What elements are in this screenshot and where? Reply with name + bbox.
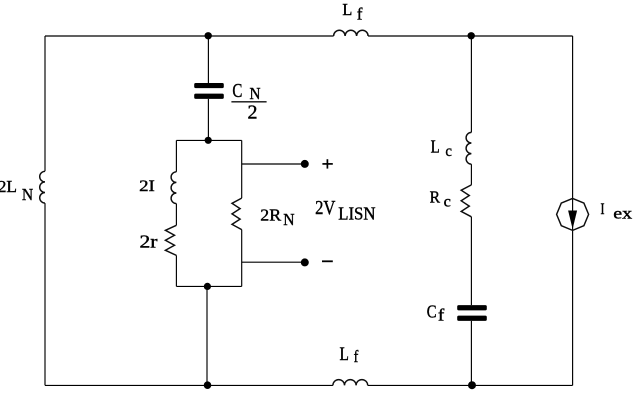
node dot top right branch tap [468,32,475,39]
svg-text:ex: ex [613,205,632,222]
inductor L_f (bottom) [333,380,368,386]
wire bottom (right segment) [368,384,573,386]
svg-text:f: f [438,306,445,325]
wire right branch (top segment) [470,36,472,132]
svg-text:2: 2 [248,103,258,124]
label 2V_LISN [315,198,375,224]
svg-text:2V: 2V [315,198,335,219]
wire bottom (left segment) [45,384,333,386]
svg-text:N: N [22,185,33,204]
svg-text:L: L [340,344,349,365]
svg-text:2L: 2L [0,177,17,196]
label L_f top [342,0,363,24]
wire box bottom edge [176,285,241,287]
label L_c [431,137,453,161]
label C_f [427,301,445,324]
svg-text:I: I [601,201,605,218]
svg-text:C: C [232,80,242,102]
plus sign [322,159,332,168]
svg-text:f: f [357,5,363,24]
svg-text:L: L [431,137,440,157]
wire box left edge (top segment) [175,140,177,171]
svg-text:N: N [283,210,294,229]
svg-text:N: N [250,84,261,103]
svg-text:c: c [444,193,451,210]
svg-text:C: C [427,301,437,321]
node dot box bottom [204,283,211,290]
wire right branch (between L_c and R_c) [470,164,472,185]
wire to - terminal [242,261,305,263]
label 2L_N [0,177,33,204]
node dot - terminal [301,258,309,266]
inductor 2I [171,172,176,204]
capacitor C_N plate 1 [194,83,224,88]
capacitor C_f plate 2 [457,316,487,321]
node dot bottom center [204,381,212,389]
wire C_N branch (upper) [207,36,209,83]
wire left (lower segment) [44,203,46,385]
label 2R_N [260,205,294,229]
label I_ex [601,201,633,222]
wire box right edge (bottom segment) [241,230,243,287]
resistor 2R_N [232,198,242,230]
label L_f bottom [340,344,359,366]
node dot + terminal [301,160,309,168]
inductor L_f (top) [334,30,369,36]
node dot bottom right branch [468,381,476,389]
wire to + terminal [242,163,305,165]
wire center bottom branch [206,286,208,385]
svg-text:f: f [354,347,359,366]
wire box top edge [176,139,241,141]
resistor 2r [165,225,176,255]
svg-text:LISN: LISN [338,204,375,224]
svg-text:R: R [430,188,441,207]
inductor L_c [466,132,471,164]
svg-text:c: c [445,143,452,160]
inductor 2L_N [40,171,45,203]
current source I_ex (octagon body) [557,198,589,230]
wire C_N branch (lower) [207,99,209,140]
wire box right edge (top segment) [241,140,243,198]
minus sign [322,260,333,262]
svg-text:L: L [342,0,352,19]
wire top (right segment) [368,35,572,37]
wire right branch (between R_c and C_f) [470,217,472,305]
wire box left edge (bottom segment) [175,255,177,286]
label C_N/2 [231,80,266,124]
label R_c [430,188,451,211]
capacitor C_N plate 2 [194,94,224,99]
resistor R_c [461,185,471,217]
wire right branch (below C_f) [470,321,472,386]
capacitor C_f plate 1 [457,305,487,310]
svg-text:2I: 2I [139,177,155,195]
wire box left edge (middle segment) [175,204,177,226]
wire left (upper segment) [44,36,46,171]
wire top (left segment) [45,35,334,37]
svg-text:2R: 2R [260,205,281,224]
node dot box top [205,137,212,144]
node dot top C_N tap [205,32,212,39]
current source I_ex arrow [568,211,577,230]
svg-text:2r: 2r [140,232,158,252]
wire right [572,36,574,385]
